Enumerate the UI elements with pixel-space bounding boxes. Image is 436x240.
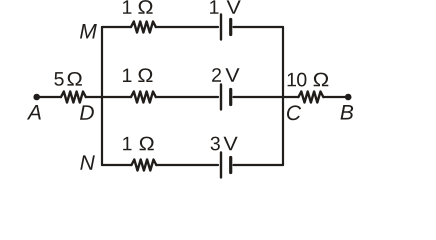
resistor 1 ohm middle <box>131 92 156 103</box>
battery 1V long plate <box>220 15 222 40</box>
label 1 ohm top <box>123 0 153 14</box>
battery 3V long plate <box>220 153 222 178</box>
node label M <box>80 24 97 38</box>
wire D segment (5-ohm to 1-ohm mid) <box>86 96 131 98</box>
label 2 V <box>212 68 239 82</box>
battery 3V short plate <box>229 158 232 173</box>
label 3 V <box>211 137 238 151</box>
wire top resistor to battery 1V <box>156 26 218 28</box>
top wire M to 1-ohm <box>102 26 131 28</box>
battery 2V short plate <box>229 90 232 105</box>
resistor 1 ohm top <box>131 22 156 33</box>
node label C <box>287 105 301 120</box>
wire battery 3V to bottom-right corner <box>234 164 284 166</box>
resistor 5 ohm <box>61 92 86 103</box>
label 5 ohm <box>54 72 81 86</box>
label 1 V <box>210 0 241 13</box>
left vertical wire M-D-N <box>101 27 103 165</box>
node label N <box>80 155 95 169</box>
battery 2V long plate <box>220 85 222 110</box>
bottom wire N to 1-ohm <box>102 164 132 166</box>
node label A <box>27 105 41 119</box>
resistor 10 ohm <box>299 92 324 103</box>
wire A to 5-ohm resistor <box>37 96 61 98</box>
wire battery 1V to top-right corner <box>234 26 284 28</box>
label 1 ohm middle <box>123 68 153 82</box>
node B terminal dot <box>345 94 352 101</box>
wire battery 2V to 10-ohm <box>234 96 299 98</box>
node A terminal dot <box>33 94 40 101</box>
node label B <box>341 105 354 119</box>
wire 10-ohm to B <box>323 96 348 98</box>
right vertical wire C <box>282 27 284 165</box>
battery 1V short plate <box>229 20 232 35</box>
node label D <box>80 105 94 119</box>
wire bottom resistor to battery 3V <box>156 164 218 166</box>
resistor 1 ohm bottom <box>132 160 157 171</box>
label 10 ohm <box>288 73 329 87</box>
wire mid resistor to battery 2V <box>156 96 218 98</box>
label 1 ohm bottom <box>123 137 154 151</box>
